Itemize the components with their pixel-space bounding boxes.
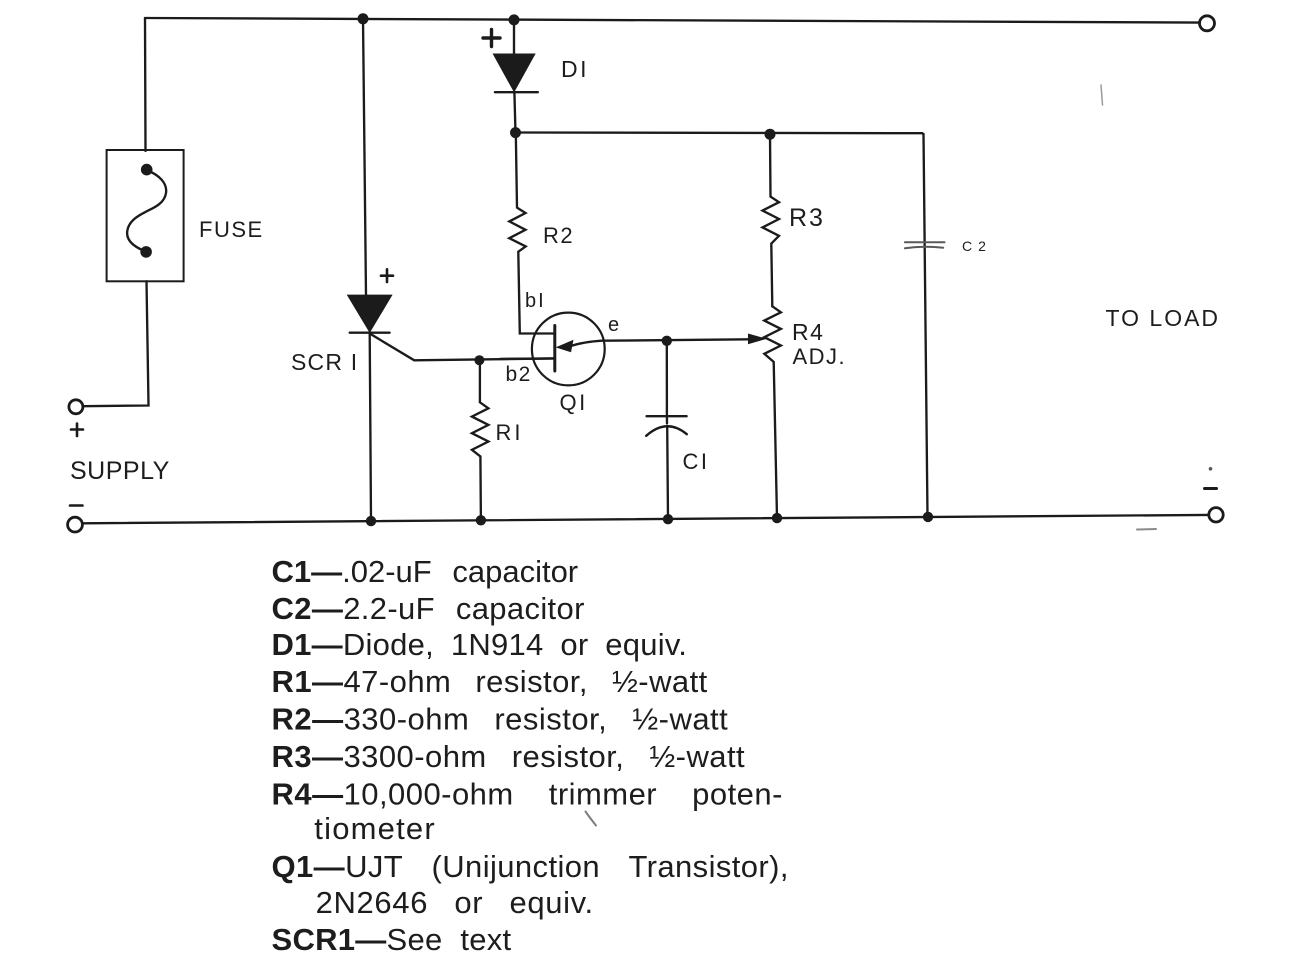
terminal supply plus bbox=[69, 400, 83, 414]
svg-text:D1—Diode, 1N914 or equiv.: D1—Diode, 1N914 or equiv. bbox=[272, 627, 688, 662]
svg-text:R3: R3 bbox=[789, 204, 825, 232]
resistor R2 zigzag bbox=[509, 133, 555, 334]
capacitor C1 curved plate bbox=[646, 426, 687, 436]
scan artifact diagonal tick near tiometer bbox=[586, 812, 597, 826]
svg-text:SCR I: SCR I bbox=[291, 349, 358, 375]
svg-text:R4—10,000-ohm trimmer poten-: R4—10,000-ohm trimmer poten- bbox=[272, 777, 783, 812]
polarity plus above SCR1 bbox=[381, 269, 393, 282]
node fuse bottom terminal dot bbox=[140, 246, 152, 258]
transistor SCR1 cathode bar bbox=[350, 332, 390, 334]
wire SCR1 gate lead bbox=[371, 334, 555, 360]
diode D1 cathode bar bbox=[495, 91, 538, 93]
wire mid horizontal bus bbox=[516, 131, 923, 134]
node junction top bus / D1 branch bbox=[509, 14, 520, 25]
node junction bottom bus / C1 bbox=[663, 514, 673, 524]
wire D1 branch vertical from top bus bbox=[513, 20, 515, 55]
node junction bottom bus / R4 bbox=[772, 513, 782, 523]
transistor Q1 emitter arrowhead bbox=[556, 340, 574, 353]
node junction top bus / SCR branch bbox=[358, 13, 369, 24]
wire top horizontal bus bbox=[145, 18, 1200, 23]
capacitor C2 plates (faint) bbox=[905, 242, 945, 248]
node junction emitter wire / C1 bbox=[662, 336, 672, 346]
svg-text:FUSE: FUSE bbox=[199, 217, 264, 242]
svg-text:SCR1—See text: SCR1—See text bbox=[272, 922, 512, 957]
node junction gate wire / R1 bbox=[474, 355, 484, 365]
potentiometer R4 wiper arrowhead bbox=[748, 334, 767, 345]
terminal supply minus bbox=[68, 517, 83, 532]
wire SCR cathode down to bottom bus bbox=[370, 333, 371, 522]
svg-text:R1—47-ohm resistor, ½-watt: R1—47-ohm resistor, ½-watt bbox=[272, 664, 708, 699]
svg-text:SUPPLY: SUPPLY bbox=[70, 457, 170, 485]
node junction D1 / mid bus bbox=[510, 127, 521, 138]
svg-text:tiometer: tiometer bbox=[314, 811, 436, 846]
polarity minus load bbox=[1205, 487, 1217, 490]
transistor SCR1 anode triangle bbox=[348, 295, 391, 331]
diode D1 anode triangle bbox=[494, 54, 535, 91]
polarity plus supply bbox=[71, 424, 83, 437]
parts list bbox=[272, 554, 789, 957]
scan artifact dash below bottom bus right bbox=[1137, 528, 1156, 531]
svg-text:QI: QI bbox=[560, 390, 588, 415]
node junction bottom bus / C2 bbox=[923, 512, 933, 522]
wire C2 branch vertical bbox=[922, 133, 928, 516]
wire C1 upper lead bbox=[666, 341, 669, 424]
svg-text:R2—330-ohm resistor, ½-watt: R2—330-ohm resistor, ½-watt bbox=[272, 702, 729, 737]
wire bottom horizontal bus bbox=[83, 515, 1209, 523]
svg-text:b2: b2 bbox=[506, 363, 532, 386]
svg-text:bI: bI bbox=[525, 290, 546, 312]
transistor Q1 base bar bbox=[553, 326, 556, 372]
fuse element S-curve bbox=[127, 170, 166, 252]
wire D1 cathode to mid junction bbox=[514, 92, 515, 133]
svg-text:C1—.02-uF capacitor: C1—.02-uF capacitor bbox=[272, 554, 579, 589]
capacitor C1 top plate bbox=[647, 415, 687, 417]
wire fuse bottom to plus supply terminal bbox=[84, 281, 149, 406]
svg-text:Q1—UJT (Unijunction Transistor: Q1—UJT (Unijunction Transistor), bbox=[272, 849, 789, 884]
transistor Q1 emitter curve bbox=[570, 341, 604, 347]
svg-text:e: e bbox=[608, 314, 619, 336]
node junction bottom bus / R1 bbox=[476, 515, 486, 525]
polarity minus supply bbox=[70, 504, 83, 507]
terminal load top bbox=[1200, 16, 1215, 31]
svg-text:C2: C2 bbox=[962, 238, 992, 254]
scan artifact tick top right bbox=[1101, 85, 1103, 105]
wire left vertical from top bus to fuse bbox=[144, 18, 147, 151]
node fuse top terminal dot bbox=[141, 164, 153, 176]
resistor R1 zigzag bbox=[472, 360, 489, 520]
node junction bottom bus / SCR bbox=[366, 516, 376, 526]
polarity plus above D1 bbox=[483, 30, 500, 47]
svg-text:R3—3300-ohm resistor, ½-watt: R3—3300-ohm resistor, ½-watt bbox=[272, 739, 746, 774]
wire C1 lower lead bbox=[666, 426, 669, 519]
svg-text:RI: RI bbox=[496, 420, 524, 445]
svg-text:2N2646 or equiv.: 2N2646 or equiv. bbox=[316, 885, 594, 920]
svg-text:ADJ.: ADJ. bbox=[793, 344, 847, 369]
potentiometer R4 zigzag bbox=[764, 306, 781, 518]
svg-text:DI: DI bbox=[561, 56, 589, 82]
svg-text:CI: CI bbox=[683, 449, 710, 474]
svg-text:R2: R2 bbox=[543, 223, 574, 248]
transistor Q1 body circle bbox=[532, 313, 605, 386]
node junction mid bus / R3 branch bbox=[765, 129, 776, 140]
scan artifact dot above load minus bbox=[1209, 467, 1213, 471]
wire SCR branch vertical from top bus bbox=[363, 19, 366, 297]
wire emitter to R4 wiper bbox=[604, 339, 750, 340]
fuse F1 body bbox=[107, 150, 184, 281]
terminal load bottom bbox=[1209, 508, 1223, 522]
wire Q1 b2 short bbox=[500, 357, 555, 360]
svg-text:TO LOAD: TO LOAD bbox=[1106, 305, 1221, 331]
svg-text:R4: R4 bbox=[792, 319, 824, 345]
svg-text:C2—2.2-uF capacitor: C2—2.2-uF capacitor bbox=[272, 591, 585, 626]
resistor R3 zigzag bbox=[763, 134, 780, 306]
